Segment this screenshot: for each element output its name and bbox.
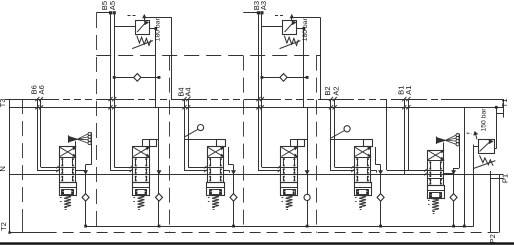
section divider dashed line 4 [243, 56, 245, 233]
valve V4 end cap [281, 183, 298, 196]
valve V2 end cap [133, 183, 150, 196]
main relief valve connections [467, 107, 497, 148]
valve V4 return spring [282, 195, 293, 209]
valve section V4 spool box [281, 147, 298, 183]
relief valve RV5 spring [132, 36, 153, 49]
lever knob of valve V5 [331, 126, 363, 140]
svg-text:A1: A1 [404, 86, 413, 95]
port B3 marker [243, 11, 260, 14]
svg-text:A4: A4 [184, 87, 193, 96]
main relief valve spring [473, 155, 495, 168]
port A5 marker [113, 11, 116, 14]
left housing edge [9, 99, 11, 233]
pilot cap of valve V5 [364, 140, 373, 147]
wire port A to valve V1 [39, 97, 60, 169]
section divider dashed line 1 [22, 99, 24, 233]
valve section V5 spool box [354, 147, 370, 183]
valve V6 return spring [428, 199, 439, 214]
svg-text:180 bar: 180 bar [155, 18, 162, 42]
svg-text:A3: A3 [259, 1, 268, 10]
port A3 marker [260, 11, 263, 14]
valve V3 end cap [207, 183, 225, 196]
check valve of section V2 [156, 194, 163, 202]
svg-text:P2: P2 [488, 234, 497, 243]
wire bottom boundary [8, 231, 504, 233]
valve V1 return spring [60, 195, 71, 209]
wire port B to valve V5 [329, 97, 355, 172]
valve section V1 spool box [59, 147, 75, 183]
lever knob of valve V3 [185, 125, 217, 140]
top cover dashed boundary [96, 55, 320, 57]
main relief valve 150 bar body [479, 140, 495, 154]
port B5 marker [96, 11, 112, 14]
valve section V3 spool box [207, 147, 223, 183]
relief valve RV3 vent line [262, 15, 321, 107]
wire bottom return bus [86, 145, 474, 227]
svg-text:A5: A5 [108, 1, 117, 10]
svg-text:N: N [0, 166, 7, 171]
anti-cavitation check valve CV3 [261, 74, 309, 82]
wire port B to valve V1 [35, 97, 59, 172]
wire valve V1 check drop line [76, 165, 87, 228]
wire feed line to valve V6 [387, 99, 428, 170]
wire relief drain to P2 [491, 171, 504, 233]
wire valve V4 check drop line [306, 107, 309, 227]
wire port A to valve V6 [406, 97, 427, 172]
section divider dashed line 5 [316, 56, 318, 233]
pilot connection of valve V4 [291, 139, 308, 147]
svg-text:A6: A6 [37, 85, 46, 94]
valve V1 end cap [59, 183, 76, 196]
wire port B to valve V3 [182, 97, 207, 172]
valve V3 return spring [208, 195, 219, 209]
wire port A to valve V2 [112, 13, 133, 169]
relief valve RV5 vent line [114, 15, 172, 107]
drawing sheet bottom border [0, 242, 514, 245]
check valve of section V4 [304, 194, 310, 200]
svg-text:T3: T3 [0, 98, 7, 107]
wire port A to valve V4 [260, 13, 281, 169]
relief valve RV3 body [283, 21, 297, 35]
valve V6 end cap [427, 186, 444, 199]
wire valve V5 check drop line [371, 147, 382, 228]
wire tank gallery T3 (top bus) [5, 99, 504, 101]
wire P1 feed line [463, 107, 466, 227]
check valve of section V5 [377, 194, 384, 202]
check valve of section V6 [450, 194, 457, 202]
pilot cap of valve V3 [217, 140, 226, 147]
port T1 connection [495, 106, 504, 114]
svg-text:150 bar: 150 bar [480, 108, 487, 132]
wire port A to valve V5 [333, 97, 355, 169]
hand lever with detent of valve V1 [69, 132, 92, 165]
wire port A to valve V3 [186, 97, 207, 169]
svg-text:A2: A2 [331, 86, 340, 95]
section divider dashed line 3 [169, 56, 171, 233]
valve section V6 spool box [427, 151, 443, 186]
wire N gallery right corner [499, 175, 501, 233]
check valve of section V1 [82, 194, 89, 202]
relief valve RV5 body [136, 21, 150, 35]
right housing edge [503, 99, 505, 118]
wire valve V3 check drop line [224, 147, 235, 228]
check valve of section V3 [230, 194, 237, 202]
wire neutral gallery N [10, 174, 504, 176]
anti-cavitation check valve CV5 [113, 74, 161, 82]
wire port B to valve V4 [256, 13, 281, 172]
valve V5 return spring [355, 195, 366, 209]
wire valve V6 check drop line [444, 168, 455, 228]
valve V2 return spring [133, 195, 144, 209]
svg-text:180 bar: 180 bar [302, 18, 309, 42]
hand lever with detent of valve V6 [437, 134, 460, 169]
svg-text:T1: T1 [500, 99, 509, 108]
wire valve V2 check drop line [157, 107, 160, 227]
valve V5 end cap [354, 183, 371, 196]
relief valve RV3 spring [280, 36, 301, 49]
valve section V2 spool box [133, 147, 150, 183]
section divider dashed line 2 [96, 13, 98, 233]
pilot connection of valve V2 [142, 139, 159, 147]
svg-text:T2: T2 [0, 222, 8, 231]
wire port B to valve V2 [108, 13, 132, 172]
svg-text:P1: P1 [500, 174, 509, 183]
wire pressure gallery (second bus) [10, 107, 504, 109]
wire port B to valve V6 [402, 97, 427, 175]
